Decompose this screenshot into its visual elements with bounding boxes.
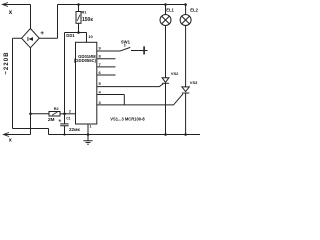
svg-text:VS2: VS2 [171, 71, 179, 76]
svg-text:2M: 2M [48, 117, 55, 123]
svg-text:C1: C1 [66, 117, 70, 121]
svg-text:x: x [9, 9, 13, 16]
svg-text:(GDD055C): (GDD055C) [74, 58, 97, 63]
svg-text:VS1...3 MCR100-8: VS1...3 MCR100-8 [110, 116, 145, 121]
svg-text:+: + [40, 30, 44, 37]
svg-text:150к: 150к [82, 17, 93, 23]
svg-text:VS3: VS3 [190, 80, 198, 85]
svg-text:1: 1 [90, 125, 92, 129]
svg-text:SW1: SW1 [121, 39, 131, 44]
svg-text:DD1: DD1 [66, 33, 75, 38]
svg-text:R1: R1 [82, 11, 87, 15]
svg-text:+: + [58, 118, 61, 124]
svg-text:~220В: ~220В [4, 51, 10, 74]
svg-text:22мк: 22мк [69, 127, 81, 132]
svg-text:EL2: EL2 [190, 8, 198, 13]
svg-text:R2: R2 [54, 107, 59, 111]
svg-text:10: 10 [88, 34, 93, 39]
svg-text:2: 2 [69, 110, 71, 114]
svg-text:EL1: EL1 [166, 7, 174, 12]
